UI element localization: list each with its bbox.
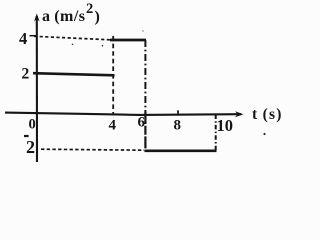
svg-text:2: 2 [22, 66, 30, 83]
y tick at 4 [30, 35, 37, 37]
dashed vertical at t=4 [112, 36, 114, 114]
svg-text:10: 10 [217, 116, 234, 135]
svg-text:4: 4 [109, 118, 117, 134]
svg-text:a (m/s: a (m/s [42, 8, 86, 25]
dashed guide at a=4 [34, 36, 110, 40]
svg-text:2: 2 [86, 1, 93, 17]
speck [102, 45, 104, 47]
y-axis a [34, 14, 40, 163]
dash-dot vertical at t=6 upper [144, 40, 146, 112]
speck [72, 44, 74, 46]
y label -2 minus [24, 135, 29, 137]
svg-text:0: 0 [29, 117, 36, 133]
vertical at t=6 lower [144, 112, 146, 151]
speck [263, 133, 265, 135]
x-axis t [5, 111, 244, 117]
svg-text:): ) [95, 9, 100, 26]
segment a=-2 from t=6 to 10 [145, 149, 217, 152]
svg-text:2: 2 [26, 137, 35, 157]
dashed guide at a=-2 [41, 149, 144, 150]
svg-text:4: 4 [19, 29, 27, 48]
dash-dot vertical at t=10 [215, 115, 217, 152]
speck [142, 30, 144, 32]
segment a=2 from t=0 to 4 [33, 73, 115, 75]
segment a=4 from t=4 to 6 [110, 39, 146, 42]
x tick at 8 [177, 110, 179, 114]
svg-text:8: 8 [174, 118, 182, 134]
svg-text:t (s): t (s) [252, 106, 283, 123]
